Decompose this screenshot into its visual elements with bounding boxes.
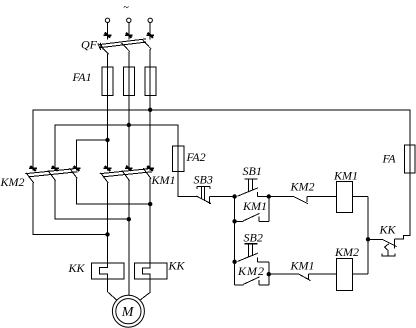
node C junction (rung2 tap) [267,273,270,276]
contactor KM1 blade pole2 [122,170,130,180]
junction crossover3 [149,202,152,205]
wire feed line 1 (phase3 to KM2 pole1 and FA) [33,110,410,171]
breaker QF blade pole1 [100,46,108,55]
svg-text:KK: KK [379,223,397,237]
svg-text:FA1: FA1 [72,70,92,84]
wire feed line 3 (phase1 to KM2 pole3) [77,140,108,171]
motor M outer circle [112,295,144,327]
svg-text:KM1: KM1 [333,168,358,182]
contactor KM1 blade pole1 [101,173,109,183]
junction crossover1 [106,233,109,236]
wire coil KM2 to common return [352,273,368,275]
fuse FA body [404,145,415,173]
thermal relay KK heater left element [100,263,108,279]
junction SB2 branch [233,260,236,263]
svg-text:FA2: FA2 [186,150,206,164]
wire self-hold right vertical [268,197,270,222]
svg-text:KM2: KM2 [334,245,359,259]
svg-text:M: M [121,305,135,320]
wire phase1 vertical [107,54,109,171]
wire SB2 right [258,261,269,263]
wire SB3 to node A [209,196,234,198]
wire FA2 through and down to rung1 [178,125,197,197]
coil KM1 [336,181,352,212]
arrow KM2 pole2 [51,166,59,171]
motor M inner circle [116,299,141,324]
wire KM1 interlock to coil KM2 [309,273,336,275]
svg-text:KM1: KM1 [151,173,176,187]
arrow KM1 pole2 [125,166,133,171]
wire FA through [409,145,411,173]
wire KM2 pole2 output crossover [55,181,129,220]
thermal relay KK heater right box [135,263,167,279]
contactor KM2 linkage [25,169,77,177]
svg-text:QF: QF [81,38,98,52]
svg-text:KM2: KM2 [237,264,265,278]
terminal L3 [148,18,152,22]
svg-text:SB3: SB3 [194,173,213,187]
wire coil KM1 to common return [352,196,368,198]
wire SB1 to node B [258,196,269,198]
wire motor lead W (right) [149,178,151,263]
fuse FA1 pole2 [123,67,134,95]
contact KM2 aux (NO self-hold) [235,277,269,285]
contactor KM1 blade pole3 [143,168,151,178]
wire L2 drop [128,23,130,40]
pushbutton SB2 (NO start rev) [238,244,258,262]
junction phase3/feed1 [149,108,152,111]
arrow KM1 pole1 [104,166,112,171]
node B junction [267,195,270,198]
junction crossover2 [127,218,130,221]
arrow L1 [104,33,112,38]
wire feed line 2 (phase2 to KM2 pole2 and FA2) [55,125,178,171]
arrow L3 [146,33,154,38]
thermal relay KK heater right element [142,263,150,279]
svg-text:KM1: KM1 [290,259,315,273]
wire phase3 vertical [149,49,151,171]
wire L1 drop [107,23,109,40]
contactor KM1 linkage [100,169,152,177]
contactor KM2 blade pole3 [70,168,78,178]
contact KM1 aux (NO self-hold) [235,213,269,221]
wire node B to KM2 interlock [269,196,293,198]
svg-text:~: ~ [123,3,129,14]
svg-text:KK: KK [168,259,186,273]
svg-text:SB1: SB1 [243,164,262,178]
terminal L1 [105,18,109,22]
arrow KM1 pole3 [146,166,154,171]
wire SB2 block right vertical [268,262,270,285]
svg-text:SB2: SB2 [244,230,263,244]
node D junction [366,238,369,241]
fuse FA2 body [172,146,184,172]
wire KM2 pole3 output crossover [77,178,151,204]
svg-text:KM2: KM2 [0,175,25,189]
contact KM1 interlock (NC) [298,274,310,281]
breaker QF blade pole3 [143,40,151,49]
svg-text:KK: KK [68,261,86,275]
pushbutton SB3 (NC stop) [196,187,211,205]
arrow KM2 pole3 [73,166,81,171]
breaker QF linkage [99,39,146,48]
wire motor lead right slant [140,279,150,300]
wire L3 drop [149,23,151,40]
wire node C to KM1 interlock [269,273,299,275]
svg-text:KM1: KM1 [242,199,267,213]
fuse FA1 pole1 [102,67,113,95]
thermal contact KK (NC) [368,239,397,256]
wire phase2 vertical [128,51,130,170]
contactor KM2 blade pole1 [26,173,34,183]
coil KM2 [336,259,352,291]
svg-text:KM2: KM2 [290,180,315,194]
contactor KM2 blade pole2 [48,170,56,180]
terminal L2 [127,18,131,22]
node A junction [233,195,236,198]
junction phase2/feed2 [127,123,130,126]
breaker QF blade pole2 [122,43,130,52]
junction self-hold branch [233,220,236,223]
arrow L2 [125,33,133,38]
wire motor lead U (left) [107,183,109,263]
arrow KM2 pole1 [29,166,37,171]
pushbutton SB1 (NO start fwd) [238,179,258,197]
wire motor lead left slant [108,279,118,301]
breaker QF handle marks [98,43,103,50]
wire node A down branch [234,197,236,285]
svg-text:FA: FA [382,152,397,166]
junction phase1/feed3 [106,138,109,141]
wire KK to fuse FA [395,173,410,239]
wire common return vertical [367,197,369,275]
thermal relay KK heater left box [92,263,124,279]
contact KM2 interlock (NC) [293,196,308,204]
fuse FA1 pole3 [145,67,156,95]
wire KM2 interlock to coil KM1 [307,196,336,198]
wire motor lead V (middle) [128,181,130,296]
wire KM2 pole1 output crossover [33,183,108,235]
